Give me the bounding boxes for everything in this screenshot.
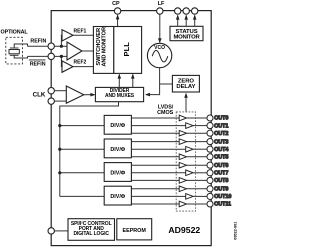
svg-text:OPTIONAL: OPTIONAL bbox=[1, 30, 29, 36]
pin REFINB bbox=[48, 53, 54, 59]
node bus junction 2 bbox=[58, 148, 61, 151]
wire branch div1 bbox=[60, 125, 104, 127]
wire REF1 out bbox=[73, 34, 93, 36]
pin OUT3 bbox=[207, 139, 213, 145]
svg-text:OUT2: OUT2 bbox=[214, 131, 228, 137]
driver OUT6 bbox=[179, 162, 186, 168]
buffer REF2 bbox=[62, 61, 73, 72]
wire status arrow 3 bbox=[194, 16, 196, 27]
divider block DIV2 bbox=[104, 139, 131, 158]
wire driver to OUT6 bbox=[187, 164, 207, 166]
wire div out OUT7 bbox=[131, 172, 185, 174]
wire div out OUT3 bbox=[131, 141, 179, 143]
wire status arrow 1 bbox=[177, 16, 179, 27]
SPI control block bbox=[68, 219, 115, 241]
wire driver to OUT10 bbox=[193, 195, 207, 197]
svg-text:OUT4: OUT4 bbox=[214, 147, 229, 153]
driver OUT3 bbox=[179, 139, 186, 145]
pin STATUS3 bbox=[192, 8, 198, 14]
pin OUT10 bbox=[207, 193, 213, 199]
buffer CLK bbox=[66, 86, 84, 103]
svg-text:DIV/Φ: DIV/Φ bbox=[110, 123, 125, 129]
wire SPI bbox=[54, 230, 68, 232]
driver OUT2 bbox=[179, 130, 186, 136]
svg-text:VCO: VCO bbox=[154, 45, 165, 51]
status monitor U-STATUS bbox=[170, 26, 203, 40]
pin OUT1 bbox=[207, 123, 213, 129]
SPI pin bbox=[48, 228, 54, 234]
node junction REFIN bbox=[60, 45, 63, 48]
driver OUT10 bbox=[186, 194, 193, 200]
divider block DIV3 bbox=[104, 163, 131, 182]
driver OUT9 bbox=[179, 186, 186, 192]
svg-text:OUT10: OUT10 bbox=[214, 194, 231, 200]
wire CLKB bbox=[54, 100, 66, 102]
wire VCO down bbox=[146, 68, 160, 95]
node bus junction 1 bbox=[58, 124, 61, 127]
driver OUT5 bbox=[179, 154, 186, 160]
svg-text:OUT3: OUT3 bbox=[214, 139, 228, 145]
wire to REF1 bbox=[60, 35, 63, 46]
wire branch div2 bbox=[60, 148, 104, 150]
wire to REF2 bbox=[60, 56, 63, 66]
wire div out OUT6 bbox=[131, 164, 179, 166]
wire CLK buffer to divider bbox=[84, 94, 95, 96]
pin OUT6 bbox=[207, 162, 213, 168]
wire REF diff out bbox=[82, 50, 93, 52]
svg-text:OUT1: OUT1 bbox=[214, 123, 228, 129]
wire driver to OUT4 bbox=[193, 148, 207, 150]
pin OUT4 bbox=[207, 146, 213, 152]
wire REFIN bbox=[28, 45, 68, 47]
svg-text:AND MUXES: AND MUXES bbox=[105, 93, 135, 99]
svg-text:CLK: CLK bbox=[33, 91, 46, 98]
EEPROM block bbox=[117, 219, 152, 240]
pin OUT11 bbox=[207, 201, 213, 207]
wire CP feed bbox=[117, 15, 119, 26]
switchover and monitor block bbox=[93, 27, 113, 74]
node bus junction 3 bbox=[58, 171, 61, 174]
svg-text:AND MONITOR: AND MONITOR bbox=[102, 27, 108, 67]
svg-text:EEPROM: EEPROM bbox=[123, 228, 147, 234]
pin CLK bbox=[48, 88, 54, 94]
wire div out OUT8 bbox=[131, 179, 179, 181]
pin CP bbox=[114, 8, 120, 14]
pin OUT7 bbox=[207, 170, 213, 176]
svg-text:AD9522: AD9522 bbox=[168, 225, 200, 235]
wire driver to OUT7 bbox=[193, 172, 207, 174]
wire div out OUT2 bbox=[131, 132, 179, 134]
svg-text:09522-001: 09522-001 bbox=[234, 222, 238, 240]
driver OUT7 bbox=[186, 170, 193, 176]
svg-text:DIV/Φ: DIV/Φ bbox=[110, 194, 125, 200]
chip outline AD9522 bbox=[51, 11, 211, 246]
pin OUT5 bbox=[207, 154, 213, 160]
wire div out OUT4 bbox=[131, 148, 185, 150]
wire zero delay feedback in bbox=[185, 94, 187, 112]
driver OUT4 bbox=[186, 146, 193, 152]
svg-text:PLL: PLL bbox=[122, 42, 131, 57]
buffer REF1 bbox=[62, 30, 73, 41]
svg-text:REFIN: REFIN bbox=[30, 38, 46, 44]
svg-text:REF1: REF1 bbox=[74, 28, 87, 34]
svg-text:LF: LF bbox=[158, 1, 165, 7]
wire driver to OUT3 bbox=[187, 141, 207, 143]
svg-text:CMOS: CMOS bbox=[157, 110, 174, 116]
wire status arrow 2 bbox=[185, 16, 187, 27]
wire driver to OUT9 bbox=[187, 188, 207, 190]
pin OUT9 bbox=[207, 186, 213, 192]
svg-text:DIV/Φ: DIV/Φ bbox=[110, 170, 125, 176]
wire REF2 out bbox=[73, 66, 93, 68]
wire driver to OUT8 bbox=[187, 179, 207, 181]
wire driver to OUT5 bbox=[187, 156, 207, 158]
svg-text:OUT5: OUT5 bbox=[214, 155, 228, 161]
svg-text:OUT0: OUT0 bbox=[214, 116, 228, 122]
svg-text:DIGITAL LOGIC: DIGITAL LOGIC bbox=[73, 231, 109, 237]
VCO oscillator bbox=[147, 43, 171, 67]
svg-text:DELAY: DELAY bbox=[176, 84, 195, 90]
svg-text:REFIN: REFIN bbox=[30, 61, 46, 67]
optional crystal dashed box bbox=[6, 37, 23, 64]
pin REFIN bbox=[48, 43, 54, 49]
pin OUT2 bbox=[207, 130, 213, 136]
svg-text:DIV/Φ: DIV/Φ bbox=[110, 147, 125, 153]
wire driver to OUT2 bbox=[187, 132, 207, 134]
crystal Y1 bbox=[9, 50, 19, 54]
divider and muxes block bbox=[95, 87, 143, 101]
driver OUT0 bbox=[179, 115, 186, 121]
buffer REFIN differential bbox=[67, 42, 82, 60]
wire branch div4 bbox=[60, 195, 104, 197]
wire div out OUT1 bbox=[131, 125, 185, 127]
wire driver to OUT0 bbox=[187, 117, 207, 119]
wire LF to VCO bbox=[159, 14, 161, 42]
wire feedback 2 to PLL bbox=[132, 75, 134, 88]
wire driver to OUT11 bbox=[187, 203, 207, 205]
svg-text:OUT6: OUT6 bbox=[214, 163, 228, 169]
wire branch div3 bbox=[60, 172, 104, 174]
wire feedback 1 to PLL bbox=[118, 75, 120, 88]
pin STATUS1 bbox=[175, 8, 181, 14]
wire div out OUT0 bbox=[131, 117, 179, 119]
wire crystal bottom to REFINB bbox=[14, 55, 27, 58]
wire CLK bbox=[54, 90, 66, 92]
pin OUT8 bbox=[207, 177, 213, 183]
node junction REFINB bbox=[60, 55, 63, 58]
svg-text:MONITOR: MONITOR bbox=[174, 35, 201, 41]
svg-text:OUT7: OUT7 bbox=[214, 171, 228, 177]
svg-text:OUT8: OUT8 bbox=[214, 178, 228, 184]
pin CLKB bbox=[48, 98, 54, 104]
svg-text:CP: CP bbox=[112, 1, 120, 7]
pin OUT0 bbox=[207, 115, 213, 121]
divider block DIV1 bbox=[104, 115, 131, 134]
wire crystal top to REFIN bbox=[14, 44, 27, 48]
PLL block bbox=[114, 27, 142, 74]
pin LF bbox=[157, 8, 163, 14]
wire div out OUT10 bbox=[131, 195, 185, 197]
wire div out OUT11 bbox=[131, 203, 179, 205]
driver OUT8 bbox=[179, 178, 186, 184]
wire zero delay out bbox=[160, 83, 173, 85]
driver OUT1 bbox=[186, 123, 193, 129]
wire driver to OUT1 bbox=[193, 125, 207, 127]
zero delay block bbox=[172, 75, 199, 92]
svg-text:REF2: REF2 bbox=[74, 59, 87, 65]
pin STATUS2 bbox=[183, 8, 189, 14]
wire div out OUT5 bbox=[131, 156, 179, 158]
wire div out OUT9 bbox=[131, 188, 179, 190]
divider block DIV4 bbox=[104, 186, 131, 205]
driver OUT11 bbox=[179, 201, 186, 207]
svg-text:OUT11: OUT11 bbox=[214, 202, 231, 208]
wire REFINB bbox=[28, 55, 68, 57]
LVDS CMOS dashed box bbox=[176, 112, 195, 211]
wire divider to bus bbox=[60, 102, 119, 197]
svg-text:OUT9: OUT9 bbox=[214, 187, 228, 193]
